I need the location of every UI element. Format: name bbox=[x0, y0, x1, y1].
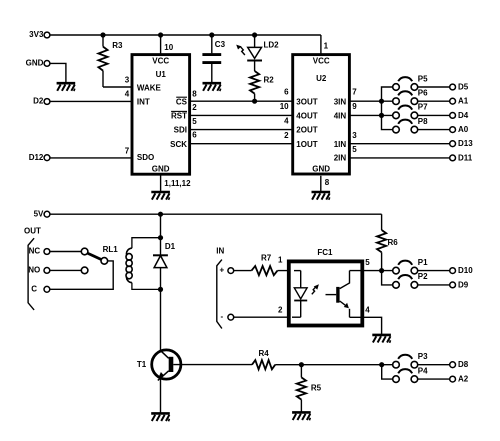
svg-text:D13: D13 bbox=[458, 139, 473, 148]
wire SDI to U2 2OUT bbox=[189, 129, 292, 131]
wire P3 to D8 bbox=[418, 364, 450, 366]
U1 pin RST (active low) bbox=[171, 111, 187, 120]
svg-text:1: 1 bbox=[324, 42, 329, 51]
svg-text:D11: D11 bbox=[458, 153, 473, 162]
svg-text:6: 6 bbox=[192, 130, 197, 139]
terminal A0 bbox=[450, 125, 469, 134]
wire P5 to D5 bbox=[418, 86, 450, 88]
junction R4/P3 bbox=[379, 362, 384, 367]
svg-text:8: 8 bbox=[192, 89, 197, 98]
svg-text:4IN: 4IN bbox=[334, 112, 347, 121]
svg-text:NO: NO bbox=[28, 266, 40, 275]
svg-text:2: 2 bbox=[284, 131, 289, 140]
svg-text:P5: P5 bbox=[418, 74, 428, 83]
U1 pin CS (active low) bbox=[176, 97, 188, 106]
FC1 internal phototransistor bbox=[326, 271, 350, 318]
junction R6/pin5 bbox=[379, 268, 384, 273]
svg-text:10: 10 bbox=[164, 43, 173, 52]
terminal D10 bbox=[450, 266, 474, 275]
svg-text:D2: D2 bbox=[33, 97, 44, 106]
ground (GND input) bbox=[57, 83, 76, 91]
svg-text:R2: R2 bbox=[264, 76, 275, 85]
svg-text:GND: GND bbox=[26, 59, 44, 68]
svg-text:R3: R3 bbox=[112, 41, 123, 50]
svg-text:SDI: SDI bbox=[174, 126, 187, 135]
wire 3V3 rail bbox=[50, 34, 321, 36]
svg-text:3IN: 3IN bbox=[334, 97, 347, 106]
svg-text:4: 4 bbox=[284, 117, 289, 126]
svg-text:SCK: SCK bbox=[170, 140, 187, 149]
wire NO to switch contact bbox=[50, 269, 82, 271]
svg-text:D10: D10 bbox=[458, 266, 473, 275]
svg-text:P2: P2 bbox=[418, 272, 428, 281]
resistor R2 bbox=[250, 71, 274, 101]
svg-text:IN: IN bbox=[216, 247, 224, 256]
resistor R6 bbox=[377, 214, 398, 270]
jumper P6 bbox=[393, 89, 428, 105]
diode D1 (flyback) bbox=[153, 242, 176, 268]
wire R7 to FC1 pin 1 bbox=[278, 270, 301, 272]
wire P3/P4 branch bbox=[382, 365, 393, 379]
svg-text:D4: D4 bbox=[458, 111, 469, 120]
FC1 internal LED bbox=[292, 271, 319, 318]
svg-text:-: - bbox=[220, 312, 223, 321]
junction 5V/relay branch bbox=[158, 212, 163, 217]
wire CS to U2 3OUT (net row 1) bbox=[189, 100, 292, 102]
wire P1 to D10 bbox=[418, 270, 450, 272]
terminal D13 bbox=[450, 139, 474, 148]
OUT connector bracket bbox=[24, 226, 41, 310]
svg-text:R6: R6 bbox=[388, 238, 399, 247]
ground (U2) bbox=[312, 192, 331, 200]
svg-text:7: 7 bbox=[125, 146, 130, 155]
svg-text:9: 9 bbox=[352, 102, 357, 111]
wire IN+ to R7 bbox=[234, 270, 252, 272]
wire P7 to D4 bbox=[418, 114, 450, 116]
wire IN- to FC1 pin 2 bbox=[234, 316, 301, 318]
svg-text:10: 10 bbox=[280, 102, 289, 111]
terminal C bbox=[31, 285, 50, 294]
svg-text:FC1: FC1 bbox=[317, 248, 333, 257]
wire R4 to P3 bbox=[275, 364, 393, 366]
svg-text:U1: U1 bbox=[156, 70, 167, 79]
svg-text:3V3: 3V3 bbox=[29, 30, 44, 39]
svg-text:3: 3 bbox=[125, 75, 130, 84]
LED LD2 bbox=[236, 35, 279, 71]
wire U2 GND pin 8 bbox=[320, 176, 322, 192]
resistor R7 bbox=[252, 254, 278, 276]
svg-text:P8: P8 bbox=[418, 117, 428, 126]
jumper P7 bbox=[393, 103, 428, 119]
wire P4 to A2 bbox=[418, 378, 450, 380]
wire P6 to A1 bbox=[418, 100, 450, 102]
terminal D11 bbox=[450, 153, 473, 162]
svg-text:5V: 5V bbox=[34, 209, 44, 218]
wire T1 base to R4 bbox=[173, 364, 252, 366]
wire 5V vertical (relay/T1 branch) bbox=[160, 214, 162, 351]
svg-text:P4: P4 bbox=[418, 366, 428, 375]
svg-text:1: 1 bbox=[278, 255, 283, 264]
svg-text:A0: A0 bbox=[458, 125, 469, 134]
ground (R5) bbox=[292, 412, 311, 420]
svg-text:INT: INT bbox=[137, 97, 150, 106]
jumper P2 bbox=[393, 272, 428, 288]
svg-text:R7: R7 bbox=[261, 254, 272, 263]
svg-text:U2: U2 bbox=[316, 74, 327, 83]
svg-text:P3: P3 bbox=[418, 352, 428, 361]
wire GND to ground bbox=[50, 63, 66, 82]
svg-text:GND: GND bbox=[152, 165, 170, 174]
resistor R3 bbox=[98, 35, 123, 87]
wire U2 VCC pin 1 bbox=[320, 35, 322, 54]
wire D12 to U1 SDO bbox=[50, 157, 132, 159]
svg-text:NC: NC bbox=[29, 247, 41, 256]
svg-text:A2: A2 bbox=[458, 375, 469, 384]
svg-text:2: 2 bbox=[278, 306, 283, 315]
svg-text:4OUT: 4OUT bbox=[296, 112, 317, 121]
svg-text:8: 8 bbox=[325, 178, 330, 187]
wire NC to switch contact bbox=[50, 251, 82, 253]
svg-text:RL1: RL1 bbox=[103, 245, 119, 254]
svg-text:P7: P7 bbox=[418, 103, 428, 112]
svg-text:6: 6 bbox=[284, 88, 289, 97]
IN connector bracket bbox=[216, 247, 224, 329]
relay switch RL1 bbox=[81, 245, 118, 274]
svg-text:D9: D9 bbox=[458, 280, 469, 289]
svg-text:VCC: VCC bbox=[313, 56, 330, 65]
terminal NC bbox=[29, 247, 50, 256]
wire U2 1IN to D13 bbox=[349, 143, 450, 145]
ground (T1 emitter) bbox=[151, 413, 170, 421]
terminal D2 bbox=[33, 97, 50, 106]
terminal 5V bbox=[34, 209, 50, 218]
terminal GND bbox=[26, 59, 50, 68]
terminal IN- bbox=[220, 312, 233, 321]
svg-text:OUT: OUT bbox=[24, 226, 41, 235]
jumper P4 bbox=[393, 366, 428, 382]
svg-text:1,11,12: 1,11,12 bbox=[164, 179, 191, 188]
resistor R5 bbox=[297, 365, 322, 413]
resistor R4 bbox=[252, 349, 275, 369]
svg-text:R5: R5 bbox=[311, 383, 322, 392]
junction coil top / D1 bbox=[158, 235, 163, 240]
svg-text:LD2: LD2 bbox=[264, 41, 280, 50]
wire U1 GND pin bbox=[160, 175, 162, 192]
ground (FC1 pin 4) bbox=[372, 335, 391, 343]
junction 3IN bbox=[379, 99, 384, 104]
svg-text:VCC: VCC bbox=[152, 56, 169, 65]
svg-text:P6: P6 bbox=[418, 89, 428, 98]
svg-text:5: 5 bbox=[365, 258, 370, 267]
svg-text:P1: P1 bbox=[418, 258, 428, 267]
junction R2/row1 bbox=[252, 99, 257, 104]
svg-text:2IN: 2IN bbox=[334, 154, 347, 163]
wire P2 to D9 bbox=[418, 284, 450, 286]
terminal D5 bbox=[450, 83, 469, 92]
svg-text:3: 3 bbox=[352, 131, 357, 140]
svg-text:D8: D8 bbox=[458, 360, 469, 369]
wire P8 to A0 bbox=[418, 129, 450, 131]
wire P1/P2 branch bbox=[382, 271, 393, 285]
svg-text:A1: A1 bbox=[458, 97, 469, 106]
svg-text:2OUT: 2OUT bbox=[296, 126, 317, 135]
jumper P8 bbox=[393, 117, 428, 133]
svg-text:+: + bbox=[219, 266, 224, 275]
wire U2 4IN to P7 bbox=[349, 114, 393, 116]
terminal NO bbox=[28, 266, 50, 275]
svg-text:RST: RST bbox=[171, 112, 187, 121]
ground (C3) bbox=[203, 83, 222, 91]
svg-text:T1: T1 bbox=[137, 360, 147, 369]
wire FC1 pin 5 (collector) to P1 bbox=[350, 270, 393, 272]
junction 3V3/LD2 bbox=[252, 32, 257, 37]
wire SCK to U2 1OUT bbox=[189, 143, 292, 145]
capacitor C3 bbox=[202, 35, 225, 83]
wire U1 VCC pin 10 bbox=[160, 35, 162, 54]
wire D2 to U1 INT bbox=[50, 100, 132, 102]
wire R3 to U1 WAKE bbox=[103, 86, 132, 88]
svg-text:4: 4 bbox=[365, 306, 370, 315]
driver IC U2 (box) bbox=[293, 55, 350, 174]
relay coil RL1 bbox=[126, 238, 160, 290]
transistor T1 bbox=[137, 350, 181, 414]
svg-text:5: 5 bbox=[352, 145, 357, 154]
svg-text:1IN: 1IN bbox=[334, 140, 347, 149]
svg-text:D5: D5 bbox=[458, 83, 469, 92]
ground (U1) bbox=[151, 192, 170, 200]
junction 4IN bbox=[379, 113, 384, 118]
svg-text:1OUT: 1OUT bbox=[296, 140, 317, 149]
terminal D12 bbox=[29, 153, 50, 162]
junction coil bottom / D1 bbox=[158, 287, 163, 292]
svg-text:GND: GND bbox=[312, 165, 330, 174]
svg-text:2: 2 bbox=[192, 103, 197, 112]
jumper P5 bbox=[393, 74, 428, 90]
junction 3V3/U1 VCC bbox=[158, 32, 163, 37]
junction 3V3/C3 bbox=[209, 32, 214, 37]
terminal D4 bbox=[450, 111, 469, 120]
svg-text:SDO: SDO bbox=[137, 153, 154, 162]
wire 5V rail bbox=[50, 213, 382, 215]
junction R4/R5 bbox=[299, 362, 304, 367]
optocoupler FC1 (box) bbox=[289, 261, 363, 325]
svg-text:D1: D1 bbox=[165, 242, 176, 251]
junction 3V3/R3 bbox=[100, 32, 105, 37]
terminal 3V3 bbox=[29, 30, 50, 39]
wire RST to U2 4OUT bbox=[189, 114, 292, 116]
svg-text:R4: R4 bbox=[259, 349, 270, 358]
svg-text:CS: CS bbox=[176, 97, 188, 106]
svg-text:C: C bbox=[31, 285, 37, 294]
svg-text:D12: D12 bbox=[29, 153, 44, 162]
svg-text:7: 7 bbox=[352, 88, 357, 97]
terminal A2 bbox=[450, 375, 469, 384]
jumper P1 bbox=[393, 258, 428, 274]
svg-text:C3: C3 bbox=[215, 40, 226, 49]
wire U2 3IN to P6 bbox=[349, 100, 393, 102]
op IC U1 (box) bbox=[132, 55, 190, 175]
wire U2 2IN to D11 bbox=[349, 157, 450, 159]
svg-text:5: 5 bbox=[192, 117, 197, 126]
terminal D9 bbox=[450, 280, 469, 289]
svg-text:WAKE: WAKE bbox=[137, 84, 162, 93]
wire switch common to C bbox=[50, 261, 113, 289]
terminal A1 bbox=[450, 97, 469, 106]
terminal D8 bbox=[450, 360, 469, 369]
wire jumper bus vertical bbox=[382, 87, 393, 130]
wire FC1 pin 4 to ground bbox=[350, 317, 382, 335]
svg-text:3OUT: 3OUT bbox=[296, 97, 317, 106]
terminal IN+ bbox=[219, 266, 233, 275]
svg-text:4: 4 bbox=[125, 90, 130, 99]
jumper P3 bbox=[393, 352, 428, 368]
